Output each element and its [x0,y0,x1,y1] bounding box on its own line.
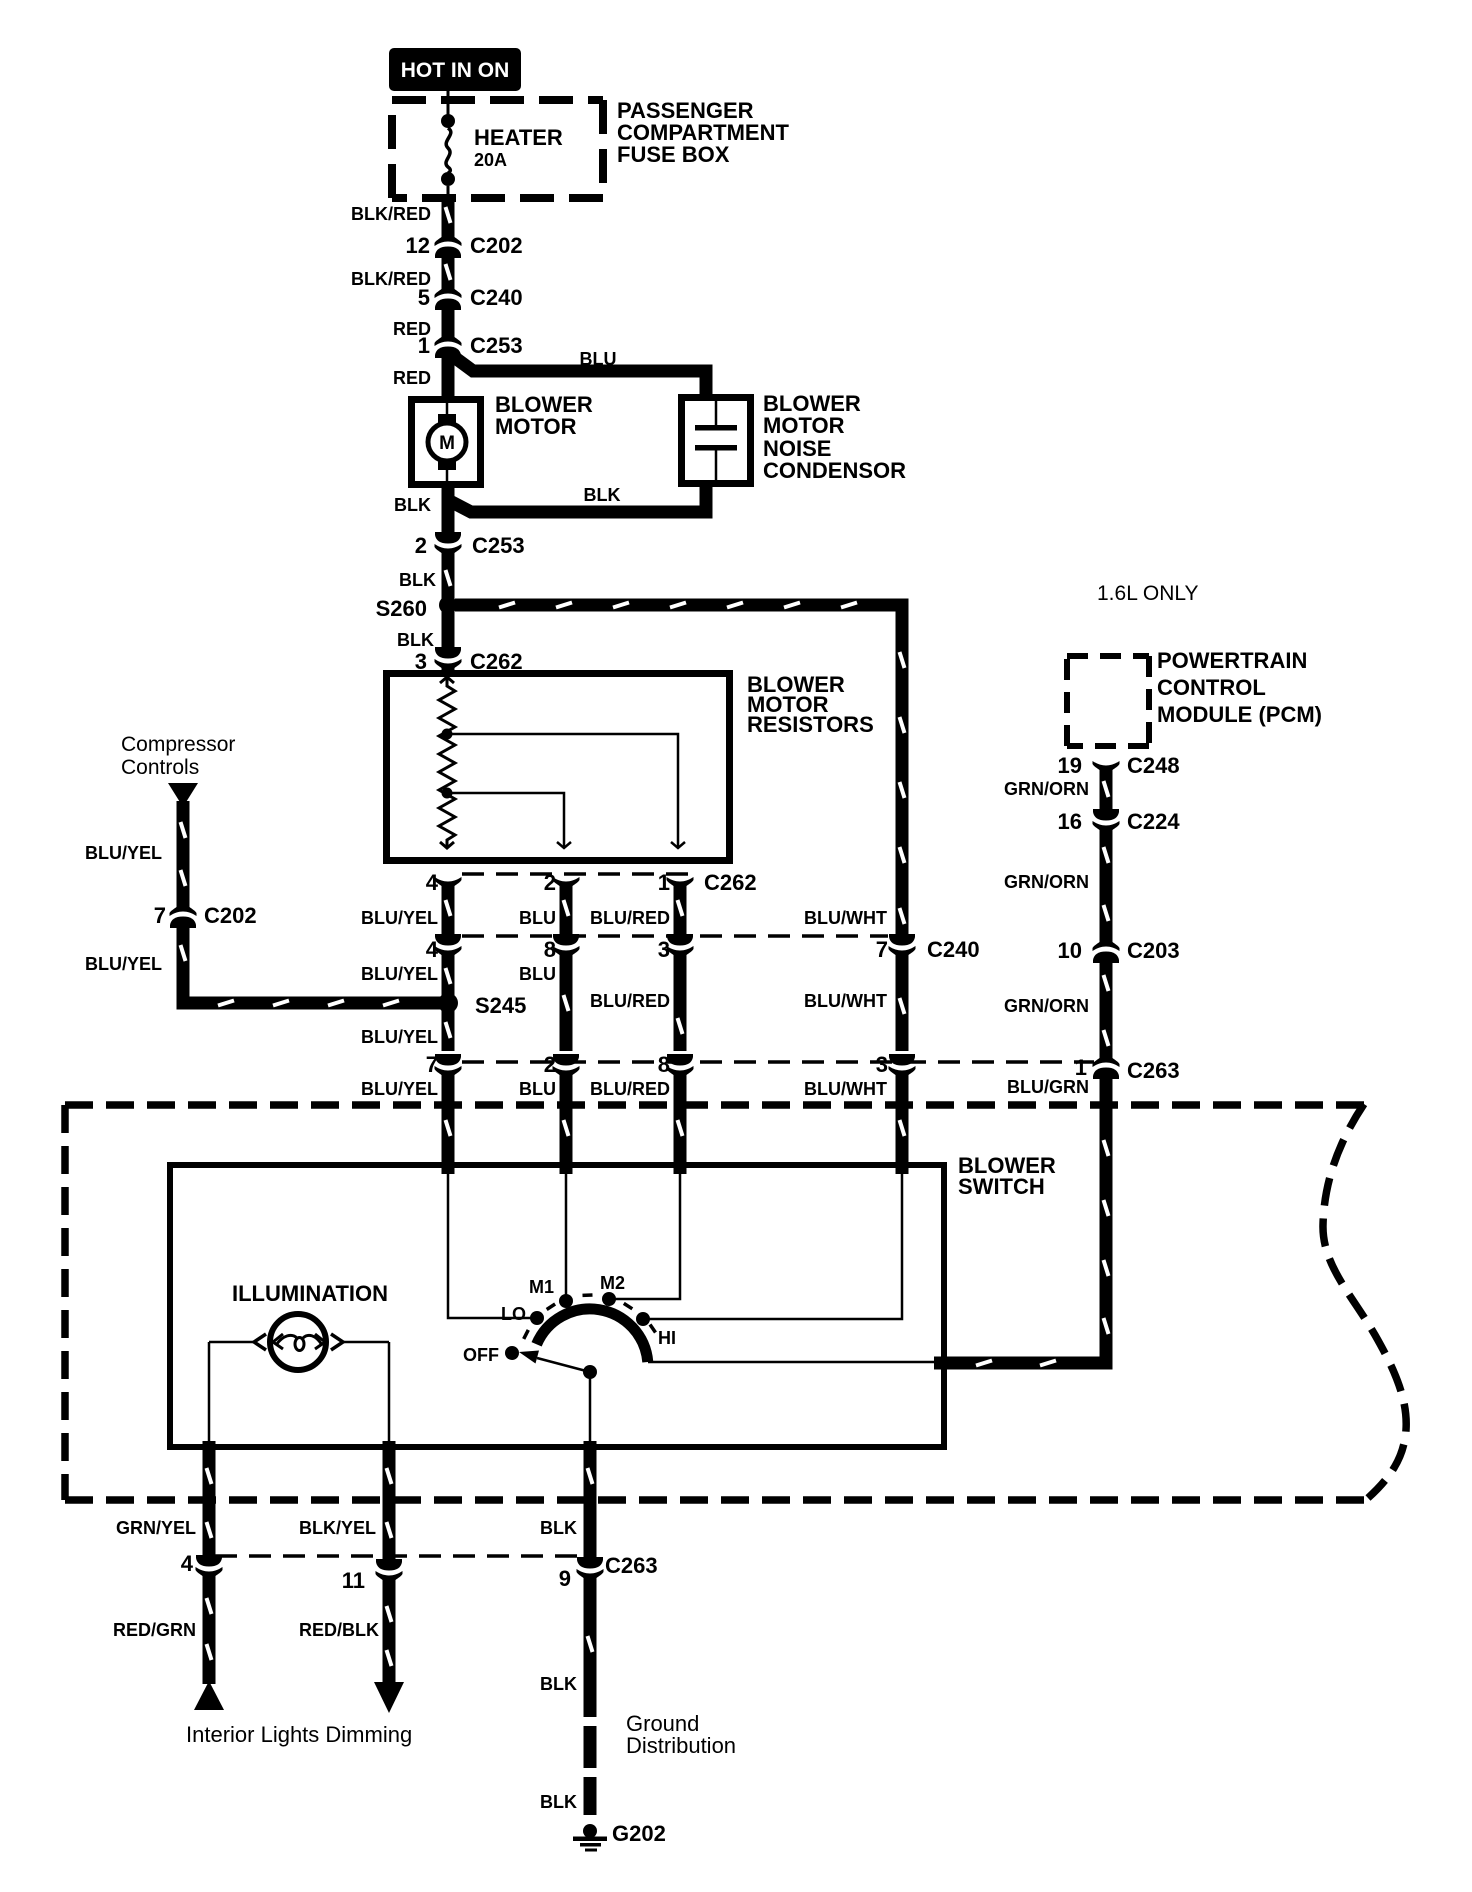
svg-text:BLK: BLK [540,1792,577,1812]
svg-text:C262: C262 [704,870,757,895]
instrument panel dashed box [65,1104,1406,1500]
wire from HOT IN ON to fuse [447,91,450,116]
fuse box (passenger compartment fuse box, dashed) [392,100,603,198]
svg-text:M1: M1 [529,1277,554,1297]
label Ground Distribution [626,1711,736,1758]
switch wire to M2 contact [613,1168,680,1299]
svg-text:19: 19 [1058,753,1082,778]
label BLOWER MOTOR NOISE CONDENSOR [763,391,906,483]
svg-text:4: 4 [426,870,439,895]
switch wire to LO contact [448,1168,532,1318]
svg-text:Compressor: Compressor [121,733,235,756]
svg-text:3: 3 [876,1052,888,1077]
svg-text:BLU/YEL: BLU/YEL [85,954,162,974]
connector C262 pin 2 [544,870,580,895]
connector C263 pin 4 [181,1551,223,1583]
svg-text:GRN/ORN: GRN/ORN [1004,996,1089,1016]
connector C262 pin 3 [415,647,523,675]
compressor controls arrow [168,783,198,807]
svg-text:5: 5 [418,285,430,310]
svg-text:BLK: BLK [584,485,621,505]
svg-text:RED: RED [393,368,431,388]
svg-text:BLK: BLK [399,570,436,590]
power tag HOT IN ON [389,48,521,91]
wire BLU C240-8 to C263-2 [564,959,569,1051]
svg-text:C240: C240 [927,937,980,962]
svg-text:C253: C253 [472,533,525,558]
svg-text:Distribution: Distribution [626,1733,736,1758]
svg-text:BLK: BLK [394,495,431,515]
svg-text:12: 12 [406,233,430,258]
wire motor to C253 pin 2 [442,500,455,541]
connector C202 pin 12 [406,230,523,258]
svg-text:BLK: BLK [540,1518,577,1538]
connector C253 pin 1 [418,330,523,358]
connector row C240 dashed line [462,934,888,938]
svg-text:C263: C263 [605,1553,658,1578]
svg-text:RED/BLK: RED/BLK [299,1620,379,1640]
svg-text:3: 3 [658,937,670,962]
wire BLU/YEL C263-7 to blower switch [446,1075,451,1174]
svg-text:BLK/RED: BLK/RED [351,204,431,224]
blower switch box [170,1165,944,1447]
label POWERTRAIN CONTROL MODULE (PCM) [1157,648,1322,727]
svg-text:LO: LO [501,1304,526,1324]
wire BLU/YEL S245 to C263-7 [446,1003,451,1051]
powertrain control module box (dashed) [1067,656,1149,746]
svg-text:ILLUMINATION: ILLUMINATION [232,1281,388,1306]
svg-text:11: 11 [342,1568,365,1593]
svg-text:C248: C248 [1127,753,1180,778]
connector C263 pin 7 [426,1052,462,1082]
label BLOWER SWITCH [958,1153,1056,1199]
svg-text:OFF: OFF [463,1345,499,1365]
resistor element zigzag [439,677,455,848]
switch wiper arm [519,1351,597,1380]
wire GRN/YEL switch to C263-4 [207,1441,212,1560]
svg-text:MOTOR: MOTOR [763,413,845,438]
connector C240 pin 8 [544,934,580,962]
svg-text:HOT IN ON: HOT IN ON [401,59,510,82]
wire RED/BLK to interior lights dimming [387,1584,392,1684]
noise condensor box [682,398,751,484]
wire BLU/RED C263-8 to blower switch [678,1075,683,1174]
connector C263 pin 1 [1075,1051,1180,1083]
svg-text:4: 4 [181,1551,194,1576]
svg-text:BLU/YEL: BLU/YEL [361,1079,438,1099]
svg-text:2: 2 [544,870,556,895]
wire BLK S260 to C262 pin 3 [442,605,455,656]
svg-text:1: 1 [418,333,430,358]
wire BLU/YEL C202-7 to S245 [181,927,444,1006]
svg-text:MOTOR: MOTOR [495,414,577,439]
svg-text:9: 9 [559,1566,571,1591]
connector C240 pin 4 [426,934,462,962]
svg-text:SWITCH: SWITCH [958,1174,1045,1199]
svg-text:1: 1 [658,870,670,895]
svg-text:BLU/RED: BLU/RED [590,991,670,1011]
wire GRN/ORN C248 to C224 [1104,768,1109,810]
blower motor box [412,400,481,485]
svg-text:16: 16 [1058,809,1082,834]
wire BLK switch to C263-9 [588,1441,593,1562]
resistor tap 1 [447,734,685,848]
connector C262 pin 1 [658,870,694,895]
svg-text:BLU: BLU [519,964,556,984]
wire BLU/RED C240-3 to C263-8 [678,959,683,1051]
svg-text:C203: C203 [1127,938,1180,963]
svg-text:BLU/WHT: BLU/WHT [804,908,887,928]
wire BLU/WHT C240-7 to C263-3 [900,959,905,1051]
connector C263 pin 8 [658,1052,694,1082]
svg-text:G202: G202 [612,1821,666,1846]
wire BLK dashed to G202 [584,1726,597,1815]
svg-text:Interior Lights Dimming: Interior Lights Dimming [186,1722,412,1747]
wire RED C240 to C253 [442,309,455,341]
connector C240 pin 7 [876,934,980,962]
connector C248 pin 19 [1058,753,1180,778]
capacitor symbol [695,401,737,480]
contact M2 [600,1273,625,1306]
switch wire rotor to right edge [648,1361,944,1364]
switch rotor arc [537,1309,648,1362]
connector C263 pin 2 [544,1052,580,1082]
svg-text:CONTROL: CONTROL [1157,675,1266,700]
contact M1 [529,1277,573,1308]
svg-text:BLU/GRN: BLU/GRN [1007,1077,1089,1097]
blower motor resistors box [387,674,730,861]
svg-text:GRN/YEL: GRN/YEL [116,1518,196,1538]
svg-text:CONDENSOR: CONDENSOR [763,458,906,483]
label BLOWER MOTOR [495,392,593,439]
wire BLK C253 to S260 [446,557,451,600]
svg-text:4: 4 [426,937,439,962]
wire GRN/ORN C224 to C203 [1104,834,1109,938]
svg-text:BLK: BLK [397,630,434,650]
connector C240 pin 5 [418,282,523,310]
connector C203 pin 10 [1058,935,1180,963]
connector C202 pin 7 [154,900,257,928]
svg-text:C202: C202 [470,233,523,258]
connector row C263 bottom dashed line [215,1554,595,1558]
svg-text:S260: S260 [376,596,427,621]
svg-text:M: M [439,433,455,454]
wire BLK/YEL switch to C263-11 [387,1441,392,1564]
svg-text:8: 8 [544,937,556,962]
svg-text:BLU: BLU [519,908,556,928]
svg-text:10: 10 [1058,938,1082,963]
svg-text:C202: C202 [204,903,257,928]
svg-text:C240: C240 [470,285,523,310]
svg-text:BLU/YEL: BLU/YEL [85,843,162,863]
wire BLK/RED fuse box to C202 [446,198,451,241]
wire RED C253 to blower motor [442,357,455,399]
svg-text:BLU/RED: BLU/RED [590,1079,670,1099]
fuse HEATER 20A [441,114,563,198]
svg-text:BLU/WHT: BLU/WHT [804,991,887,1011]
svg-text:HEATER: HEATER [474,125,563,150]
resistor tap junction dot 1 [442,729,453,740]
svg-text:7: 7 [154,903,166,928]
wire RED/GRN to interior lights dimming [207,1580,212,1684]
wire BLK C263-9 to ground distribution [588,1582,593,1717]
svg-text:GRN/ORN: GRN/ORN [1004,779,1089,799]
switch wire wiper to box bottom [589,1372,592,1446]
compressor controls label [121,733,235,779]
svg-text:FUSE BOX: FUSE BOX [617,142,730,167]
svg-text:POWERTRAIN: POWERTRAIN [1157,648,1307,673]
wire BLU C262-2 to C240-8 [564,884,569,935]
svg-text:BLU/YEL: BLU/YEL [361,1027,438,1047]
svg-text:2: 2 [544,1052,556,1077]
contact LO [501,1304,544,1325]
contact OFF [463,1345,519,1365]
ground G202 [573,1821,666,1852]
svg-text:BLK/YEL: BLK/YEL [299,1518,376,1538]
svg-text:M2: M2 [600,1273,625,1293]
splice S245 [438,993,526,1018]
connector row C262 dashed line [462,872,700,876]
svg-text:Controls: Controls [121,756,199,779]
svg-text:20A: 20A [474,150,507,170]
svg-text:BLK: BLK [540,1674,577,1694]
svg-text:GRN/ORN: GRN/ORN [1004,872,1089,892]
svg-text:RESISTORS: RESISTORS [747,712,874,737]
svg-text:2: 2 [415,533,427,558]
label PASSENGER COMPARTMENT FUSE BOX [617,98,789,167]
svg-text:1.6L ONLY: 1.6L ONLY [1097,582,1199,605]
wire BLU/YEL compressor controls to C202-7 [181,801,186,908]
connector C263 pin 11 [342,1559,403,1593]
svg-text:7: 7 [426,1052,438,1077]
splice S260 [376,596,457,621]
svg-text:C253: C253 [470,333,523,358]
svg-text:HI: HI [658,1328,676,1348]
connector C263 pin 9 [559,1553,658,1591]
svg-text:MODULE (PCM): MODULE (PCM) [1157,702,1322,727]
connector C253 pin 2 [415,532,525,560]
wire GRN/ORN C203 to C263 [1104,962,1109,1052]
svg-text:C263: C263 [1127,1058,1180,1083]
svg-text:BLU/WHT: BLU/WHT [804,1079,887,1099]
wire BLK motor to condensor [448,485,706,512]
bulb wire left [209,1342,253,1446]
resistor tap 2 [447,793,571,848]
wire into resistor box [442,668,455,672]
svg-text:RED/GRN: RED/GRN [113,1620,196,1640]
arrow from interior lights dimming [194,1681,224,1710]
wire BLU/GRN C263-1 to blower switch [934,1078,1109,1366]
wire BLK/RED C202 to C240 [446,257,451,293]
switch detent dashed arc [524,1295,656,1339]
wire BLU C263-2 to blower switch [564,1075,569,1174]
wire BLU/RED C262-1 to C240-3 [678,884,683,935]
connector row C263 dashed line [462,1060,1094,1064]
wire BLU to noise condensor [450,354,706,396]
connector C262 pin 4 [426,870,462,895]
svg-text:C224: C224 [1127,809,1180,834]
wire BLU/WHT C263-3 to blower switch [900,1075,905,1174]
contact HI [636,1312,676,1348]
wire BLU/YEL C262-4 to C240-4 [446,884,451,935]
bulb wire right [344,1342,389,1446]
svg-text:BLU/YEL: BLU/YEL [361,964,438,984]
connector C240 pin 3 [658,934,694,962]
wire BLU/WHT branch S260 to right [455,603,905,942]
svg-text:BLU/YEL: BLU/YEL [361,908,438,928]
switch wire to HI contact [648,1168,902,1319]
svg-text:8: 8 [658,1052,670,1077]
wire BLU/YEL C240-4 to S245 [446,959,451,996]
illumination bulb [254,1314,343,1370]
switch wire to M1 contact [565,1168,568,1298]
svg-text:BLU: BLU [580,349,617,369]
label BLOWER MOTOR RESISTORS [747,672,874,737]
svg-text:BLU: BLU [519,1079,556,1099]
blower motor M symbol [428,403,466,481]
connector C224 pin 16 [1058,809,1181,837]
svg-text:7: 7 [876,937,888,962]
svg-text:BLU/RED: BLU/RED [590,908,670,928]
svg-text:S245: S245 [475,993,526,1018]
arrow to interior lights dimming [374,1682,404,1713]
connector C263 pin 3 [876,1052,916,1082]
resistor tap junction dot 2 [442,788,453,799]
